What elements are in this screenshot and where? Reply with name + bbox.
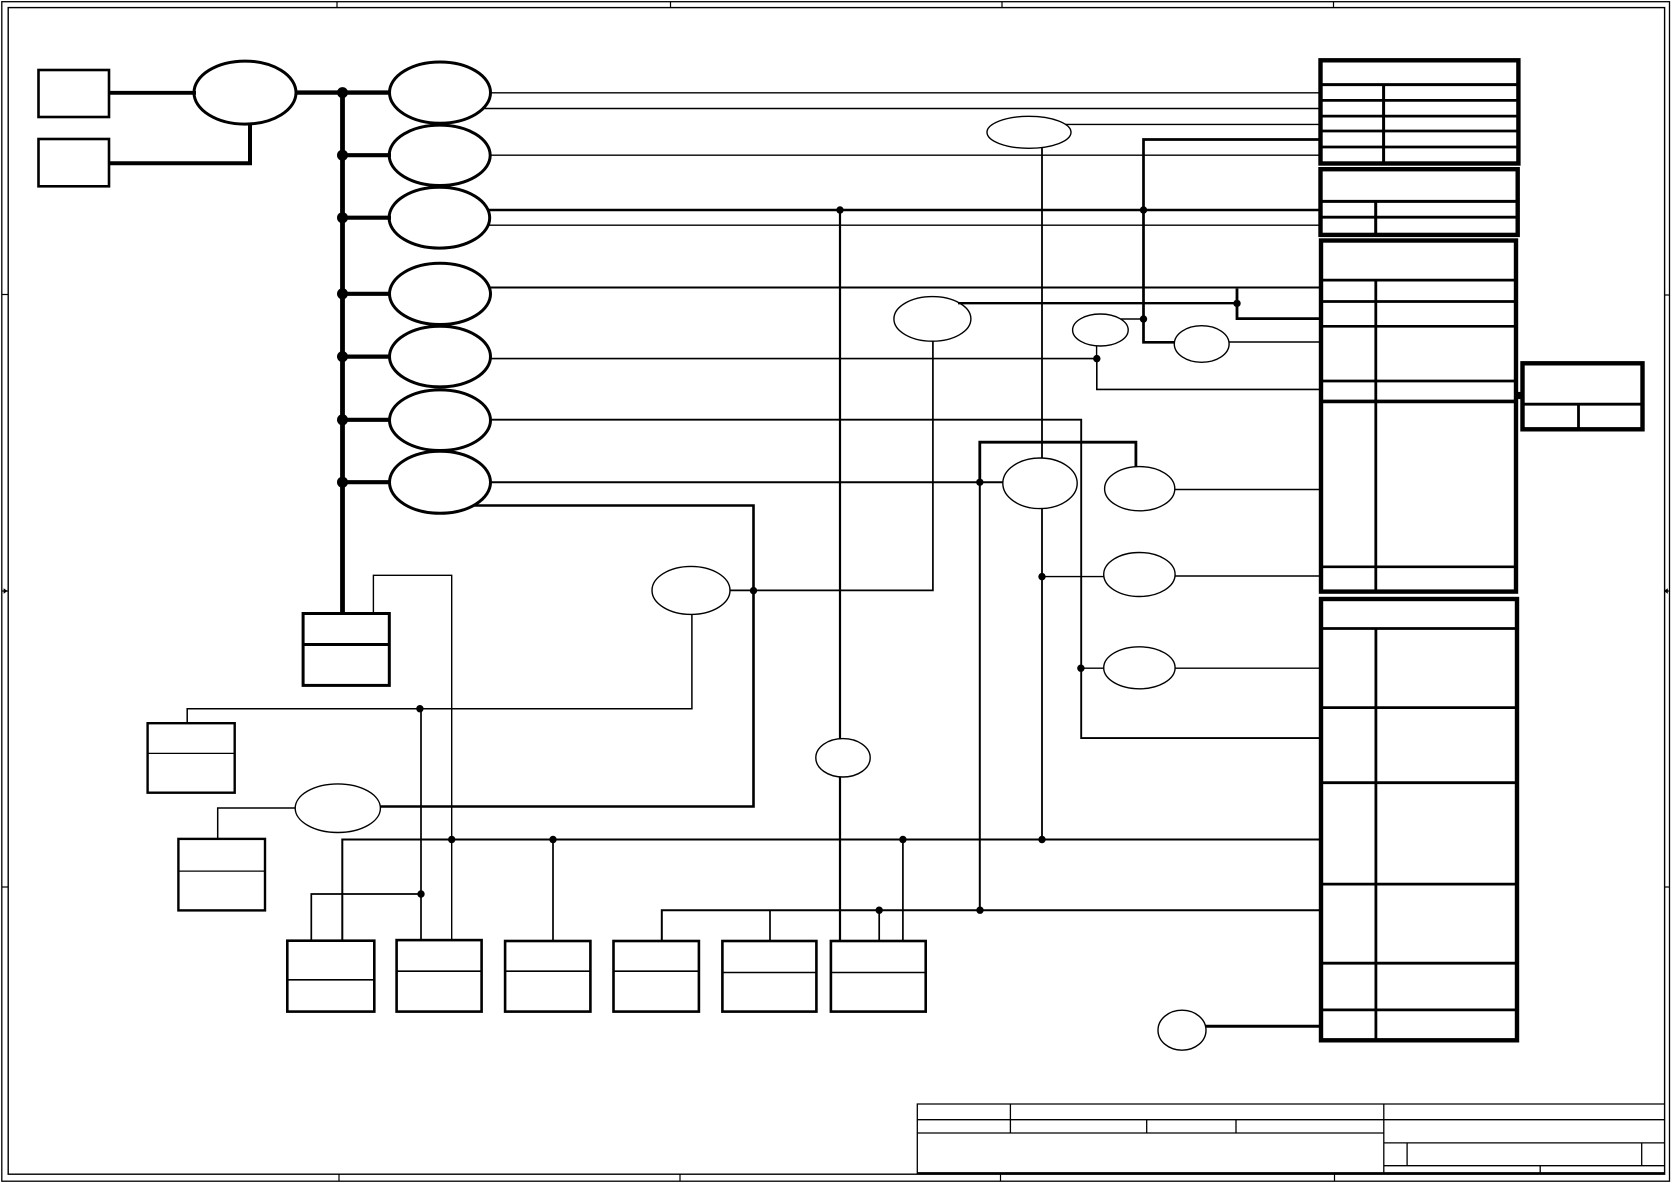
box B6 (831, 941, 926, 1012)
wire to K8 left (1081, 667, 1104, 669)
junction K5 vertical to K7 (1038, 573, 1045, 580)
wire K7 to X3 pin6 (1175, 575, 1320, 577)
wire K1 coil vertical (1041, 147, 1043, 839)
junction wire210 at x840 (836, 206, 843, 213)
junction W10 at B6 stub (876, 907, 883, 914)
box B5 divider (722, 972, 816, 974)
box B2 divider (397, 970, 482, 972)
wire F5 to X3 pin1 (489, 287, 1320, 289)
wire stub to B5 (769, 910, 771, 941)
relay K5 (ellipse at N1) (1003, 458, 1077, 509)
junction bus row3 (337, 212, 348, 223)
junction K8 wire (1077, 665, 1084, 672)
connector X2 column divider (1374, 201, 1377, 235)
junction W11 (417, 890, 424, 897)
relay K3 (small ellipse) (1073, 314, 1129, 346)
connector X3 column divider (1374, 280, 1377, 591)
box B5 (722, 941, 816, 1012)
wire K1 to X1 pin3 (1066, 123, 1321, 125)
junction node N1 (976, 479, 983, 486)
wire K8 to X4 pin1 (1175, 667, 1320, 669)
bus stub row6 (343, 418, 392, 422)
sensor S1 (ellipse left low) (295, 784, 380, 833)
sensor S2 (ellipse on vertical) (816, 739, 870, 777)
fuse F8 (390, 451, 491, 513)
wire F8 to node N1 (491, 481, 1003, 483)
motor M1 (ellipse) (652, 566, 730, 614)
box B2 (397, 940, 482, 1012)
wire K4 to X3 pin3 (1229, 341, 1321, 343)
wire stub to B3 (552, 840, 554, 942)
wire R3 top to B2 (thin loop) (373, 575, 451, 940)
wire K3 right to thick net (1121, 318, 1144, 320)
junction bus row5 (337, 351, 348, 362)
bus main vertical (340, 93, 345, 614)
box R5 divider (178, 870, 265, 872)
connector X3 row lines (1321, 300, 1516, 303)
plug P1 outline (1523, 363, 1643, 429)
junction W9 at K1 vertical (1038, 836, 1045, 843)
wire node V1 to X3 pin2 (1237, 289, 1321, 319)
connector X1 row lines (1321, 99, 1519, 102)
wire G1 to fuse F1 (109, 91, 196, 95)
junction bus row4 (337, 288, 348, 299)
junction bus row2 (337, 150, 348, 161)
wire stub to B6 right (902, 840, 904, 942)
title block hline r1 (917, 1119, 1664, 1121)
wire vertical X2 net down to B6 (839, 210, 841, 941)
connector X3 outline (1321, 241, 1516, 592)
box B1 (bottom row) (287, 941, 374, 1012)
wire node N1 down to wire W10 (979, 482, 981, 910)
title block right verticals (1406, 1143, 1408, 1166)
connector X3 header line (1321, 279, 1516, 282)
bus stub row7 (343, 480, 392, 484)
title block left verticals (1009, 1104, 1011, 1133)
box G2 (battery feed lower) (39, 139, 110, 186)
wire F4 to X2 pin2 (488, 224, 1321, 226)
wire F2 to X1 pin1 (491, 92, 1321, 94)
wire S1 left to R5 (218, 808, 296, 839)
bus stub row4 (343, 292, 392, 296)
plug P1 stub (1515, 392, 1523, 399)
connector X1 header line (1321, 83, 1519, 86)
connector X2 header line (1321, 200, 1518, 203)
wire node N1 up-over to K6 (980, 442, 1136, 482)
plug P1 vertical divider (1577, 404, 1580, 429)
wire M1 bottom to R4 (187, 614, 692, 723)
wire K6 to X3 pin5 (1175, 489, 1321, 491)
junction W9 at B6 stub (899, 836, 906, 843)
wire F8 bottom to E16 loop (380, 506, 753, 807)
junction bus row1 (337, 87, 348, 98)
fuse F6 (390, 326, 491, 387)
connector X4 column divider (1375, 629, 1378, 1041)
relay K8 (ellipse) (1104, 647, 1175, 689)
junction wire210 at thick net (1140, 206, 1147, 213)
relay K7 (ellipse) (1104, 553, 1175, 597)
fuse F1 (main ellipse) (194, 61, 296, 124)
box B3 divider (505, 970, 590, 972)
box B4 (614, 941, 699, 1012)
box B3 (505, 941, 590, 1012)
title block bottom line (917, 1172, 1664, 1174)
title block right hline r4 (1384, 1165, 1665, 1167)
title block main divider (1383, 1104, 1385, 1174)
box B1 divider (287, 979, 374, 981)
title block outline (917, 1104, 1664, 1174)
bus stub row5 (343, 355, 392, 359)
title block right hline r3 (1384, 1142, 1665, 1144)
wire F3 to X1 pin5 (490, 154, 1320, 156)
connector X1 outline (1321, 60, 1519, 163)
connector X4 row lines (1321, 706, 1517, 709)
wire K2 down to M1 (730, 341, 933, 590)
frame centering arrow left (4, 588, 8, 593)
fuse F4 (389, 187, 490, 248)
junction W10 at N1 vertical (976, 907, 983, 914)
relay K6 (ellipse upper right) (1105, 467, 1175, 511)
junction W9 at B2 loop (448, 836, 455, 843)
connector X4 header line (1321, 627, 1517, 630)
wire W9 (long horizontal to X4 pin3) (342, 840, 1320, 941)
junction K2 wire at V1 (1233, 300, 1240, 307)
junction bus row6 (337, 414, 348, 425)
wire S3 to X4 pin6 (1206, 1025, 1322, 1028)
sensor S3 (ellipse bottom right) (1158, 1010, 1206, 1050)
connector X1 column divider (1382, 85, 1385, 164)
wire vertical into B2 (420, 709, 422, 941)
wire K3 bottom stub (1096, 346, 1098, 359)
box R4 (ground module) (148, 723, 235, 793)
box R3 (relay box under bus) (303, 614, 389, 686)
wire F4 to X2 pin1 (488, 209, 1321, 212)
box B6 divider (831, 972, 926, 974)
fuse F3 (389, 125, 490, 185)
wire F2 to X1 pin2 (483, 108, 1321, 110)
fuse F5 (390, 263, 491, 324)
wire F7 to X4 pin2 (491, 420, 1321, 738)
junction wire708 (416, 705, 423, 712)
wire F6 to X3 pin4 (490, 359, 1320, 390)
connector X4 outline (1321, 599, 1517, 1040)
box R4 divider (148, 752, 235, 754)
wire W10 (long horizontal to X4 pin4) (662, 910, 1321, 941)
junction F6 wire at K3 stub (1093, 355, 1100, 362)
wire thick net to X1 pin4 (1144, 140, 1321, 343)
wire K2 to node V1 (958, 302, 1237, 304)
relay K1 (small ellipse top) (987, 116, 1071, 148)
bus main horizontal (296, 90, 391, 94)
box R5 (ground module 2) (178, 839, 265, 911)
relay K4 (ellipse right of K3) (1174, 326, 1229, 363)
wire stub to B6 left (878, 910, 880, 941)
wire W11 (B1 to junction) (311, 894, 421, 941)
junction W9 at B3 stub (549, 836, 556, 843)
fuse F7 (390, 390, 491, 451)
wire junction to K7 left (1042, 576, 1104, 578)
junction K3 at thick net (1140, 315, 1147, 322)
relay K2 (ellipse mid) (894, 297, 971, 342)
box G1 (battery feed top-left) (39, 70, 110, 117)
bus stub row3 (343, 216, 392, 220)
junction bus row7 (337, 477, 348, 488)
connector X2 row line (1321, 216, 1518, 219)
box B4 divider (614, 970, 699, 972)
plug P1 divider line (1523, 403, 1643, 406)
wire G2 to fuse F1 bottom (109, 123, 250, 163)
connector X2 outline (1321, 169, 1518, 235)
bus stub row2 (343, 153, 392, 157)
fuse F2 (390, 62, 491, 123)
frame centering arrow right (1664, 588, 1668, 593)
title block hline r2 left (917, 1132, 1384, 1134)
box R3 divider (303, 643, 389, 646)
junction M1 wire at loop (750, 587, 757, 594)
